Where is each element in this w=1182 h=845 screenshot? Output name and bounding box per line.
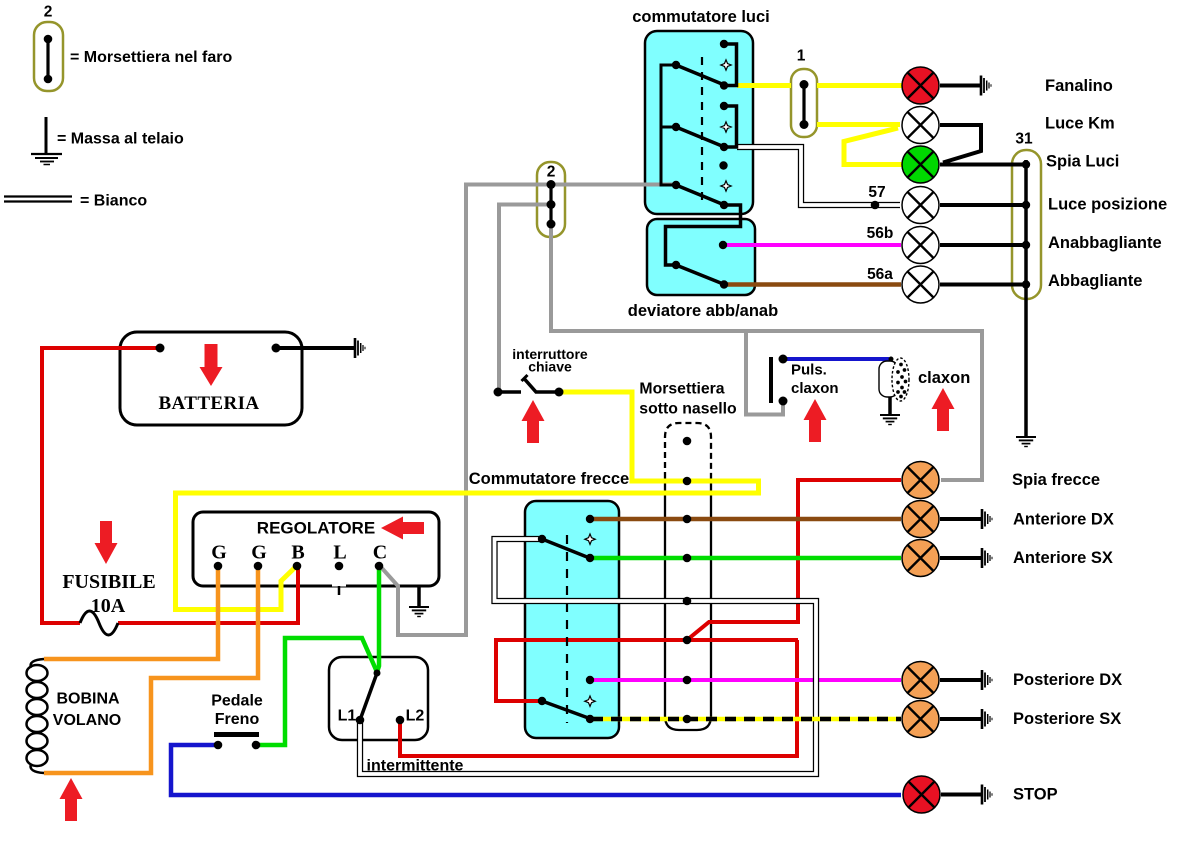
svg-text:REGOLATORE: REGOLATORE <box>257 519 375 538</box>
svg-text:deviatore abb/anab: deviatore abb/anab <box>628 302 778 320</box>
svg-text:L1: L1 <box>338 708 357 725</box>
svg-text:Fanalino: Fanalino <box>1045 77 1113 95</box>
svg-text:Anabbagliante: Anabbagliante <box>1048 234 1162 252</box>
svg-text:VOLANO: VOLANO <box>53 712 121 729</box>
svg-text:Puls.: Puls. <box>791 362 827 379</box>
svg-text:Luce Km: Luce Km <box>1045 115 1115 133</box>
svg-text:Morsettiera: Morsettiera <box>639 381 724 398</box>
svg-text:Anteriore SX: Anteriore SX <box>1013 549 1113 567</box>
svg-text:31: 31 <box>1015 131 1033 148</box>
svg-text:Anteriore DX: Anteriore DX <box>1013 511 1114 529</box>
svg-text:Posteriore SX: Posteriore SX <box>1013 710 1121 728</box>
svg-text:1: 1 <box>797 48 806 65</box>
svg-text:= Massa al telaio: = Massa al telaio <box>57 131 184 148</box>
svg-text:claxon: claxon <box>918 369 970 387</box>
svg-text:= Bianco: = Bianco <box>80 193 147 210</box>
svg-text:Pedale: Pedale <box>211 693 263 710</box>
svg-text:B: B <box>291 542 304 564</box>
svg-text:10A: 10A <box>91 595 126 617</box>
svg-text:L: L <box>333 542 346 564</box>
svg-text:L2: L2 <box>406 708 425 725</box>
svg-text:commutatore luci: commutatore luci <box>632 8 770 26</box>
svg-text:STOP: STOP <box>1013 786 1058 804</box>
svg-text:Spia frecce: Spia frecce <box>1012 471 1100 489</box>
svg-text:Commutatore frecce: Commutatore frecce <box>469 470 629 488</box>
svg-text:intermittente: intermittente <box>367 758 464 775</box>
svg-text:FUSIBILE: FUSIBILE <box>62 571 155 593</box>
svg-text:G: G <box>211 542 227 564</box>
svg-text:Posteriore DX: Posteriore DX <box>1013 671 1122 689</box>
svg-text:C: C <box>373 542 387 564</box>
svg-text:56a: 56a <box>867 266 893 283</box>
svg-text:2: 2 <box>547 164 556 181</box>
svg-text:Freno: Freno <box>215 711 260 728</box>
svg-text:claxon: claxon <box>791 380 839 397</box>
svg-text:56b: 56b <box>867 225 894 242</box>
svg-text:57: 57 <box>868 184 885 201</box>
svg-text:Luce posizione: Luce posizione <box>1048 196 1167 214</box>
svg-text:BATTERIA: BATTERIA <box>158 393 259 414</box>
svg-text:= Morsettiera nel faro: = Morsettiera nel faro <box>70 49 233 66</box>
svg-text:Abbagliante: Abbagliante <box>1048 272 1142 290</box>
svg-text:chiave: chiave <box>528 359 572 375</box>
svg-text:Spia Luci: Spia Luci <box>1046 153 1119 171</box>
svg-text:2: 2 <box>44 4 53 21</box>
svg-text:G: G <box>251 542 267 564</box>
svg-text:BOBINA: BOBINA <box>56 691 120 708</box>
svg-text:sotto nasello: sotto nasello <box>639 401 737 418</box>
